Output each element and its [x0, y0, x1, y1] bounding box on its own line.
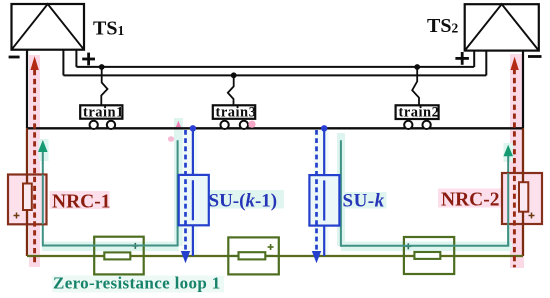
- arrow: NRC-1 current (red dashed, up): [33, 70, 36, 263]
- wire: SU-(k-1) box to loop (blue): [192, 225, 194, 256]
- wire: TS2 negative feeder (right vertical): [522, 51, 524, 129]
- wire: SU-(k-1) rail to box (blue): [192, 128, 194, 175]
- wire: NRC-1 rail drop (dark red): [26, 128, 28, 183]
- polarity + in NRC-2: [529, 213, 535, 219]
- train3: [213, 104, 257, 129]
- svg-text:SU-k: SU-k: [343, 190, 385, 211]
- arrow: SU-k current (blue dashed, down): [315, 130, 318, 252]
- wire: NRC-2 to loop (dark red): [522, 212, 524, 256]
- terminal plus TS2: [455, 52, 469, 65]
- wire: TS2 positive stub from feeder line: [473, 51, 475, 67]
- loop unit box 3: [404, 237, 454, 274]
- wire: zero-resistance loop current path left (teal): [43, 140, 178, 245]
- node: pantograph junction train1: [99, 64, 105, 70]
- svg-text:NRC-2: NRC-2: [441, 190, 500, 211]
- arrow: loop current into NRC-2 (teal): [503, 145, 513, 156]
- loop unit box 1: [94, 237, 144, 275]
- substation TS1: [12, 4, 85, 50]
- wire: zero-resistance loop (olive): [27, 255, 523, 257]
- wire: pantograph train2: [412, 67, 419, 105]
- wire: rail: [27, 127, 523, 129]
- polarity + in loop box 1: [132, 243, 138, 249]
- svg-text:train1: train1: [83, 104, 124, 120]
- wire: pantograph train1: [101, 67, 107, 105]
- wire: catenary contact line (lower): [63, 74, 486, 76]
- wire: teal through NRC-1 (over pink fill): [42, 175, 44, 225]
- wire: NRC-2 rail drop (dark red): [522, 128, 524, 182]
- arrow: NRC-2 current (red dashed, up): [513, 69, 516, 267]
- terminal minus TS1: [9, 56, 20, 59]
- marker: pink wheel ghost near train3: [248, 121, 255, 128]
- train2: [396, 104, 440, 129]
- loop unit box 2: [228, 237, 278, 274]
- highlight halo bands (background tints): [29, 54, 524, 293]
- node: pantograph junction train3: [231, 72, 237, 78]
- wire: zero-resistance loop current path right (teal): [341, 140, 508, 246]
- SU-k section unit box: [309, 175, 339, 226]
- wire: SU-k rail to box (blue): [323, 128, 325, 175]
- terminal plus TS1: [82, 53, 95, 66]
- wire: TS2 positive stub from contact line: [485, 51, 487, 76]
- node: SU-k rail tap: [321, 125, 327, 131]
- marker: pink artifact blob: [168, 136, 174, 142]
- NRC-1 converter box: [8, 175, 47, 225]
- svg-text:NRC-1: NRC-1: [52, 192, 111, 213]
- arrow: loop current into NRC-1 (teal): [38, 140, 48, 152]
- wire: dark red NRC-2 element lead bottom: [522, 212, 524, 224]
- terminal minus TS2: [528, 55, 542, 58]
- svg-text:train3: train3: [216, 104, 257, 120]
- wire: SU-k box to loop (blue): [323, 226, 325, 256]
- svg-text:Zero-resistance loop 1: Zero-resistance loop 1: [53, 274, 221, 293]
- wire: teal through NRC-2 (over pink fill): [507, 173, 509, 246]
- wire: dark red NRC-1 element lead top: [26, 175, 28, 184]
- node: SU-(k-1) rail tap: [190, 125, 196, 131]
- marker: small pink arrow at rail (left loop): [176, 121, 181, 127]
- polarity + in loop box 3: [405, 243, 411, 249]
- svg-text:SU-(k-1): SU-(k-1): [209, 191, 278, 212]
- wire: catenary feeder line (upper): [76, 66, 474, 68]
- wire: TS1 negative feeder (left vertical): [26, 50, 28, 129]
- SU-(k-1) section unit box: [179, 175, 209, 225]
- wire: TS1 positive stub to contact line: [62, 50, 64, 75]
- wire: dark red NRC-1 element lead bottom: [26, 210, 28, 224]
- polarity + in loop box 2: [268, 244, 274, 250]
- polarity + in NRC-1: [14, 213, 20, 219]
- train1: [80, 104, 124, 129]
- arrow: SU-(k-1) current (blue dashed, down): [184, 130, 187, 252]
- wire: NRC-1 to loop (dark red): [26, 210, 28, 256]
- NRC-2 converter box: [502, 173, 542, 224]
- svg-text:train2: train2: [399, 104, 440, 120]
- substation TS2: [465, 4, 539, 50]
- wire: dark red through NRC-2 element lead: [522, 173, 524, 182]
- node: pantograph junction train2: [414, 64, 420, 70]
- wire: pantograph train3: [228, 75, 234, 105]
- wire: TS1 positive stub to feeder line: [75, 50, 77, 67]
